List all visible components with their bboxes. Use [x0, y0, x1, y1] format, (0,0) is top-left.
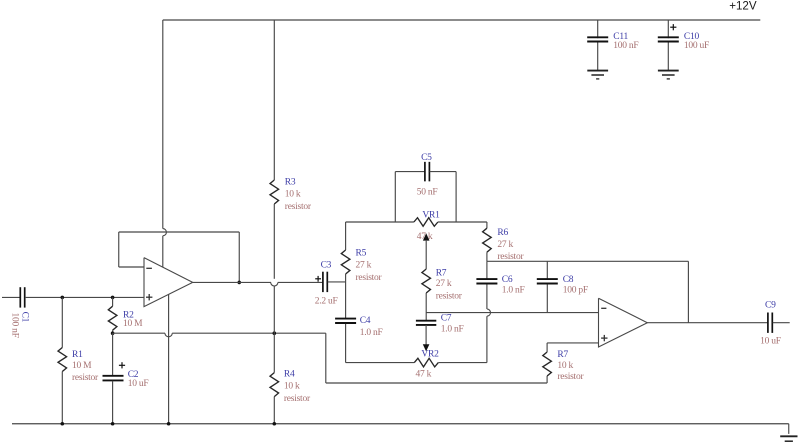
svg-text:VR2: VR2 [421, 349, 439, 359]
svg-text:resistor: resistor [72, 373, 99, 383]
svg-text:R1: R1 [72, 350, 83, 360]
svg-text:VR1: VR1 [422, 211, 440, 221]
svg-text:50 nF: 50 nF [417, 188, 438, 198]
svg-text:10 k: 10 k [557, 361, 573, 371]
svg-text:27 k: 27 k [356, 261, 372, 271]
svg-text:R6: R6 [497, 228, 508, 238]
svg-text:resistor: resistor [284, 394, 311, 404]
svg-text:R7: R7 [557, 350, 568, 360]
svg-text:1.0 nF: 1.0 nF [360, 328, 383, 338]
svg-text:C1: C1 [19, 312, 29, 323]
svg-text:resistor: resistor [436, 291, 463, 301]
svg-text:R3: R3 [285, 177, 296, 187]
svg-text:100 pF: 100 pF [563, 285, 588, 295]
svg-text:10 uF: 10 uF [760, 336, 781, 346]
svg-text:100 uF: 100 uF [684, 41, 709, 51]
svg-text:10 k: 10 k [284, 382, 300, 392]
svg-text:1.0 nF: 1.0 nF [502, 285, 525, 295]
svg-text:27 k: 27 k [497, 240, 513, 250]
svg-text:100 nF: 100 nF [613, 41, 638, 51]
svg-text:27 k: 27 k [436, 279, 452, 289]
svg-text:R5: R5 [356, 249, 367, 259]
svg-text:C5: C5 [421, 153, 432, 163]
svg-text:47 k: 47 k [416, 370, 432, 380]
svg-text:10 uF: 10 uF [128, 379, 149, 389]
svg-text:R4: R4 [284, 369, 295, 379]
svg-text:10 M: 10 M [123, 319, 143, 329]
svg-text:resistor: resistor [497, 252, 524, 262]
svg-text:C9: C9 [765, 301, 776, 311]
svg-text:C3: C3 [321, 260, 332, 270]
svg-text:resistor: resistor [557, 372, 584, 382]
svg-text:C7: C7 [441, 313, 452, 323]
svg-text:resistor: resistor [285, 202, 312, 212]
svg-text:C6: C6 [502, 275, 513, 285]
svg-text:R7: R7 [436, 269, 447, 279]
svg-text:10 M: 10 M [72, 361, 92, 371]
svg-text:2.2 uF: 2.2 uF [315, 296, 338, 306]
svg-text:C4: C4 [360, 316, 371, 326]
svg-text:1.0 nF: 1.0 nF [441, 325, 464, 335]
svg-text:C8: C8 [563, 275, 574, 285]
svg-text:resistor: resistor [356, 273, 383, 283]
svg-text:+12V: +12V [729, 0, 757, 13]
svg-text:100 nF: 100 nF [9, 313, 19, 338]
svg-text:10 k: 10 k [285, 190, 301, 200]
